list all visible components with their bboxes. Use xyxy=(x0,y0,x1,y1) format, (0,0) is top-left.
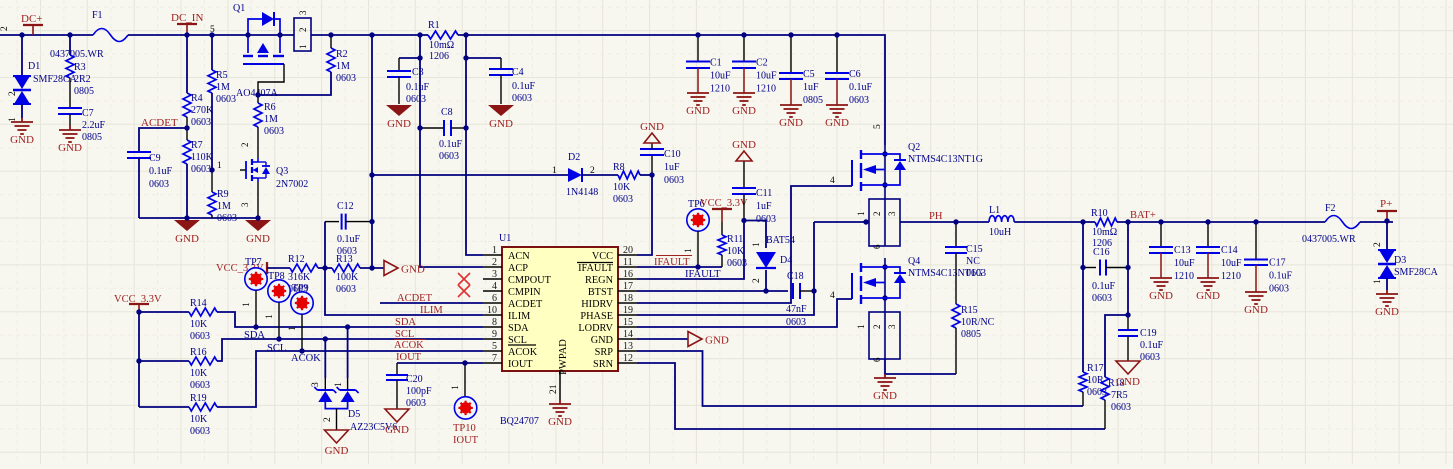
ground C20 xyxy=(385,409,409,422)
svg-text:3: 3 xyxy=(240,202,250,207)
svg-text:10mΩ: 10mΩ xyxy=(429,40,454,51)
svg-text:F2: F2 xyxy=(1325,203,1336,214)
svg-text:R6: R6 xyxy=(264,102,276,113)
svg-text:2: 2 xyxy=(0,26,10,31)
svg-text:R9: R9 xyxy=(217,189,229,200)
wire C16 row xyxy=(1082,222,1084,268)
svg-text:2: 2 xyxy=(872,325,882,330)
wire LODRV row to Q4 gate xyxy=(637,299,852,327)
svg-text:C6: C6 xyxy=(849,69,861,80)
wire BAT+ rail xyxy=(1117,221,1325,223)
svg-text:1uF: 1uF xyxy=(756,201,772,212)
wire ACN vertical x466 xyxy=(466,35,483,255)
svg-text:D2: D2 xyxy=(568,152,580,163)
wire C12 left vertical / ILIM xyxy=(325,222,483,315)
svg-text:47nF: 47nF xyxy=(786,304,807,315)
svg-text:0603: 0603 xyxy=(191,117,211,128)
svg-text:C13: C13 xyxy=(1174,245,1191,256)
svg-text:0603: 0603 xyxy=(191,164,211,175)
svg-text:C1: C1 xyxy=(710,58,722,69)
svg-text:10: 10 xyxy=(487,305,497,316)
capacitor C5 xyxy=(790,35,792,73)
svg-text:SMF28CA: SMF28CA xyxy=(1394,267,1439,278)
ground Q4 xyxy=(874,374,896,390)
Q1 drain pins bracket xyxy=(294,18,311,51)
ground C2 xyxy=(733,93,755,105)
svg-text:TP7: TP7 xyxy=(245,257,262,268)
svg-text:Q1: Q1 xyxy=(233,3,245,14)
svg-text:2: 2 xyxy=(298,28,308,33)
svg-text:10uF: 10uF xyxy=(1174,258,1195,269)
svg-text:2.2uF: 2.2uF xyxy=(82,120,106,131)
svg-text:1: 1 xyxy=(265,314,275,319)
svg-text:10K: 10K xyxy=(190,319,208,330)
svg-text:1210: 1210 xyxy=(756,84,776,95)
svg-text:5: 5 xyxy=(492,341,497,352)
wire R19 to ACOK row xyxy=(217,351,483,407)
svg-text:D1: D1 xyxy=(28,61,40,72)
svg-text:100pF: 100pF xyxy=(406,386,432,397)
wire IFAULT row xyxy=(637,266,722,268)
svg-text:GND: GND xyxy=(489,118,513,130)
svg-text:IFAULT: IFAULT xyxy=(578,263,614,274)
svg-text:GND: GND xyxy=(325,445,349,457)
svg-text:PWPAD: PWPAD xyxy=(558,339,569,375)
capacitor C4 xyxy=(500,58,502,69)
capacitor C19 xyxy=(1127,315,1129,330)
capacitor C12 xyxy=(325,221,339,223)
svg-text:2: 2 xyxy=(492,257,497,268)
svg-text:ACOK: ACOK xyxy=(291,353,321,364)
svg-text:0.1uF: 0.1uF xyxy=(1092,281,1116,292)
transistor Q2 NTMS4C13NT1G xyxy=(884,145,886,199)
capacitor C2 xyxy=(743,35,745,62)
ground C10 up xyxy=(644,133,660,143)
svg-text:6: 6 xyxy=(872,244,882,249)
svg-text:C10: C10 xyxy=(664,149,681,160)
resistor R13 xyxy=(332,264,360,272)
wire R5 to Q3 gate node xyxy=(211,93,213,170)
svg-text:1uF: 1uF xyxy=(803,82,819,93)
svg-text:4: 4 xyxy=(830,176,835,186)
svg-text:1: 1 xyxy=(334,382,344,387)
svg-text:0603: 0603 xyxy=(613,194,633,205)
capacitor C15 xyxy=(955,222,957,247)
Q2 source pins bracket xyxy=(869,199,900,246)
svg-text:U1: U1 xyxy=(499,233,511,244)
svg-text:C2: C2 xyxy=(756,58,768,69)
svg-text:0603: 0603 xyxy=(149,179,169,190)
wire Q3 source to ground rail xyxy=(257,182,259,218)
wire DC+ rail to Q1 xyxy=(128,34,294,36)
svg-text:R10: R10 xyxy=(1091,208,1108,219)
resistor R9 xyxy=(208,192,216,215)
wire ground rail bottom left xyxy=(139,217,258,219)
svg-text:0603: 0603 xyxy=(966,268,986,279)
U1 pin 20 VCC xyxy=(618,254,637,256)
svg-text:1210: 1210 xyxy=(1221,271,1241,282)
U1 pin 1 ACN xyxy=(483,254,502,256)
U1 pin 5 ACOK xyxy=(483,350,502,352)
resistor R17 xyxy=(1079,372,1087,392)
ground arrow U1 xyxy=(688,332,702,347)
svg-text:12: 12 xyxy=(623,353,633,364)
svg-text:4: 4 xyxy=(492,281,497,292)
svg-text:1: 1 xyxy=(552,166,557,176)
wire DC+ rail left xyxy=(0,34,93,36)
wire ACP vertical x420 xyxy=(420,35,483,267)
svg-text:1N4148: 1N4148 xyxy=(566,187,598,198)
wire ACDET row xyxy=(380,302,483,304)
U1 pin 15 LODRV xyxy=(618,326,637,328)
ground D3 xyxy=(1376,290,1398,306)
ground C17 xyxy=(1245,292,1267,304)
power port VCC_3.3V R11 xyxy=(712,208,732,210)
svg-text:0603: 0603 xyxy=(190,380,210,391)
svg-text:ACDET: ACDET xyxy=(508,299,543,310)
svg-text:GND: GND xyxy=(686,105,710,117)
resistor R3 xyxy=(69,35,71,55)
Q4 source pins bracket xyxy=(869,312,900,359)
svg-text:18: 18 xyxy=(623,293,633,304)
ground D5 xyxy=(325,430,349,443)
svg-text:1: 1 xyxy=(217,161,222,171)
svg-text:0603: 0603 xyxy=(439,151,459,162)
wire D4 to BTST xyxy=(765,270,767,291)
resistor R11 xyxy=(721,222,723,235)
svg-text:C5: C5 xyxy=(803,69,815,80)
svg-text:0.1uF: 0.1uF xyxy=(1140,340,1164,351)
ground C14 xyxy=(1197,278,1219,290)
svg-text:1210: 1210 xyxy=(710,84,730,95)
ground D1 xyxy=(11,118,33,134)
resistor R19 xyxy=(139,406,189,408)
diode D1 TVS xyxy=(21,35,23,75)
wire SRN jog xyxy=(1105,315,1128,377)
svg-text:DC_IN: DC_IN xyxy=(171,12,203,24)
wire PH rail xyxy=(814,221,869,223)
svg-text:3: 3 xyxy=(298,10,308,15)
svg-text:3: 3 xyxy=(311,382,321,387)
resistor R1 xyxy=(428,31,458,39)
svg-text:2: 2 xyxy=(872,212,882,217)
svg-text:Q3: Q3 xyxy=(276,166,288,177)
svg-text:GND: GND xyxy=(1149,290,1173,302)
svg-text:1: 1 xyxy=(856,212,866,217)
svg-text:R11: R11 xyxy=(727,234,743,245)
svg-text:0.1uF: 0.1uF xyxy=(149,166,173,177)
body diode Q1 xyxy=(248,19,262,35)
svg-text:1: 1 xyxy=(451,385,461,390)
svg-text:D3: D3 xyxy=(1394,255,1406,266)
svg-text:GND: GND xyxy=(1116,376,1140,388)
svg-text:0603: 0603 xyxy=(217,213,237,224)
svg-text:R12: R12 xyxy=(288,254,305,265)
svg-text:8: 8 xyxy=(492,317,497,328)
svg-text:10mΩ: 10mΩ xyxy=(1092,227,1117,238)
wire D2 to R8 xyxy=(582,174,618,176)
svg-text:C4: C4 xyxy=(512,67,524,78)
resistor R18 xyxy=(1101,377,1109,400)
svg-text:NTMS4C13NT1G: NTMS4C13NT1G xyxy=(908,154,983,165)
junction dots xyxy=(19,32,24,37)
capacitor C1 xyxy=(697,35,699,62)
svg-text:2: 2 xyxy=(752,278,762,283)
U1 pin 13 SRP xyxy=(618,350,637,352)
svg-text:2: 2 xyxy=(1373,242,1383,247)
svg-text:0603: 0603 xyxy=(190,331,210,342)
ground C11 up xyxy=(736,151,752,161)
U1 pin 14 GND xyxy=(618,338,637,340)
svg-text:17: 17 xyxy=(623,281,633,292)
ground C5 xyxy=(780,105,802,117)
svg-text:GND: GND xyxy=(732,105,756,117)
svg-text:F1: F1 xyxy=(92,10,103,21)
resistor R5 xyxy=(211,35,213,70)
svg-text:21: 21 xyxy=(549,384,559,394)
svg-text:1: 1 xyxy=(298,45,308,50)
svg-text:ACP: ACP xyxy=(508,263,528,274)
resistor R16 xyxy=(139,360,189,362)
svg-text:C7: C7 xyxy=(82,108,94,119)
svg-text:R3: R3 xyxy=(74,62,86,73)
svg-text:SDA: SDA xyxy=(395,317,416,328)
svg-text:R15: R15 xyxy=(961,305,978,316)
svg-text:3: 3 xyxy=(887,211,897,216)
wire VCC to U1 xyxy=(637,175,652,255)
svg-text:DC+: DC+ xyxy=(21,13,42,25)
wire SRP row xyxy=(637,351,1083,406)
fuse F1 xyxy=(93,29,128,42)
svg-text:R17: R17 xyxy=(1087,363,1104,374)
svg-text:GND: GND xyxy=(58,142,82,154)
svg-text:0603: 0603 xyxy=(216,94,236,105)
capacitor C18 xyxy=(792,283,794,299)
svg-text:0603: 0603 xyxy=(1092,293,1112,304)
capacitor C14 xyxy=(1207,222,1209,247)
svg-text:1M: 1M xyxy=(217,201,231,212)
svg-text:2: 2 xyxy=(323,417,333,422)
svg-text:1: 1 xyxy=(1373,279,1383,284)
U1 pin 3 CMPOUT xyxy=(483,278,502,280)
svg-text:11: 11 xyxy=(623,257,633,268)
svg-text:3: 3 xyxy=(887,324,897,329)
U1 pin 7 IOUT xyxy=(483,362,502,364)
wire ACDET node xyxy=(139,128,187,152)
svg-text:10K: 10K xyxy=(727,246,745,257)
diode D4 BAT54 xyxy=(756,252,776,268)
svg-text:0805: 0805 xyxy=(961,329,981,340)
U1 pin 18 HIDRV xyxy=(618,302,637,304)
ground rail left xyxy=(174,220,200,231)
svg-text:0603: 0603 xyxy=(336,73,356,84)
svg-text:GND: GND xyxy=(175,233,199,245)
svg-text:GND: GND xyxy=(246,233,270,245)
svg-text:C18: C18 xyxy=(787,271,804,282)
diode D2 1N4148 xyxy=(568,168,582,182)
svg-text:6: 6 xyxy=(492,293,497,304)
capacitor C13 xyxy=(1160,222,1162,247)
svg-text:CMPOUT: CMPOUT xyxy=(508,275,552,286)
svg-text:0603: 0603 xyxy=(264,126,284,137)
svg-text:0437005.WR: 0437005.WR xyxy=(50,49,104,60)
svg-text:GND: GND xyxy=(1196,290,1220,302)
capacitor C7 xyxy=(58,107,82,109)
svg-text:IOUT: IOUT xyxy=(508,359,533,370)
svg-text:R16: R16 xyxy=(190,347,207,358)
svg-text:PH: PH xyxy=(929,211,943,222)
svg-text:1: 1 xyxy=(752,242,762,247)
svg-text:GND: GND xyxy=(732,139,756,151)
capacitor C6 xyxy=(836,35,838,73)
svg-text:GND: GND xyxy=(825,117,849,129)
wire HIDRV row to Q2 gate xyxy=(637,186,852,303)
svg-text:0805: 0805 xyxy=(803,95,823,106)
svg-text:0603: 0603 xyxy=(1269,284,1289,295)
resistor R15 xyxy=(952,304,960,328)
svg-text:GND: GND xyxy=(10,134,34,146)
svg-text:2N7002: 2N7002 xyxy=(276,179,308,190)
svg-text:ILIM: ILIM xyxy=(420,305,443,316)
svg-text:TP10: TP10 xyxy=(453,423,476,434)
wire DC_IN down to R4 xyxy=(186,35,188,93)
U1 pin 9 SCL xyxy=(483,338,502,340)
svg-text:SMF28CA: SMF28CA xyxy=(33,74,78,85)
U1 BQ24707 body xyxy=(502,247,618,371)
svg-text:GND: GND xyxy=(779,117,803,129)
wire R13 to gnd arrow xyxy=(360,267,384,269)
wire D2 row xyxy=(372,174,568,176)
capacitor C9 xyxy=(127,151,151,153)
U1 pin 21 PWPAD xyxy=(559,371,561,400)
svg-text:0603: 0603 xyxy=(1111,402,1131,413)
svg-text:GND: GND xyxy=(385,424,409,436)
wire R12 R13 xyxy=(318,267,332,269)
svg-text:SCL: SCL xyxy=(508,335,527,346)
U1 pin 6 ACDET xyxy=(483,302,502,304)
svg-text:C15: C15 xyxy=(966,244,983,255)
svg-text:110K: 110K xyxy=(191,152,214,163)
svg-text:R7: R7 xyxy=(191,140,203,151)
svg-text:1: 1 xyxy=(492,245,497,256)
svg-text:19: 19 xyxy=(623,305,633,316)
svg-text:BAT+: BAT+ xyxy=(1130,210,1156,221)
svg-text:270K: 270K xyxy=(191,105,214,116)
svg-text:2: 2 xyxy=(8,91,18,96)
ground C7 xyxy=(59,126,81,142)
U1 pin 12 SRN xyxy=(618,362,637,364)
svg-text:R14: R14 xyxy=(190,298,207,309)
svg-text:NC: NC xyxy=(966,256,980,267)
resistor R2 xyxy=(327,48,335,72)
svg-text:7: 7 xyxy=(492,353,497,364)
svg-text:0603: 0603 xyxy=(190,426,210,437)
resistor R12 xyxy=(290,264,318,272)
no connect CMPOUT xyxy=(458,273,470,285)
svg-text:10R/NC: 10R/NC xyxy=(961,317,995,328)
svg-text:10uF: 10uF xyxy=(1221,258,1242,269)
svg-text:GND: GND xyxy=(387,118,411,130)
svg-text:GND: GND xyxy=(401,264,425,276)
resistor R6 xyxy=(257,95,259,103)
svg-text:1M: 1M xyxy=(216,82,230,93)
svg-text:10K: 10K xyxy=(613,182,631,193)
power port VCC divider xyxy=(266,262,268,274)
svg-text:1210: 1210 xyxy=(1174,271,1194,282)
svg-text:15: 15 xyxy=(623,317,633,328)
svg-text:16: 16 xyxy=(623,269,633,280)
svg-text:L1: L1 xyxy=(989,205,1000,216)
capacitor C17 xyxy=(1255,222,1257,260)
svg-text:10R: 10R xyxy=(1087,375,1104,386)
svg-text:C11: C11 xyxy=(756,188,772,199)
svg-text:0603: 0603 xyxy=(337,246,357,257)
no connect CMPIN xyxy=(458,285,470,297)
svg-text:0603: 0603 xyxy=(849,95,869,106)
wire R6 to Q3 drain xyxy=(257,127,259,158)
svg-text:C12: C12 xyxy=(337,201,354,212)
capacitor C20 xyxy=(396,363,398,375)
wire Q1 gate chain xyxy=(258,64,284,95)
svg-text:D5: D5 xyxy=(348,409,360,420)
resistor R10 xyxy=(1095,218,1117,226)
svg-text:C19: C19 xyxy=(1140,328,1157,339)
wire PHASE row xyxy=(637,222,814,315)
svg-text:1M: 1M xyxy=(336,61,350,72)
svg-text:Q4: Q4 xyxy=(908,256,920,267)
ground C3 xyxy=(386,105,412,116)
svg-text:R4: R4 xyxy=(191,93,203,104)
svg-text:C9: C9 xyxy=(149,153,161,164)
svg-text:1uF: 1uF xyxy=(664,162,680,173)
svg-text:SCL: SCL xyxy=(395,329,414,340)
wire IOUT row xyxy=(397,362,483,364)
svg-text:0805: 0805 xyxy=(74,86,94,97)
svg-text:5: 5 xyxy=(873,124,883,129)
wire divider vertical x372 xyxy=(371,35,373,268)
svg-text:4: 4 xyxy=(830,291,835,301)
svg-text:10uF: 10uF xyxy=(756,71,777,82)
svg-text:GND: GND xyxy=(1375,306,1399,318)
svg-text:0603: 0603 xyxy=(336,284,356,295)
svg-text:GND: GND xyxy=(548,416,572,428)
U1 pin 2 ACP xyxy=(483,266,502,268)
svg-text:SCL: SCL xyxy=(267,343,286,354)
wire gate node to R2 xyxy=(258,72,331,95)
svg-text:1: 1 xyxy=(242,302,252,307)
wire rail R1 to Q2 drain corner xyxy=(458,35,885,145)
svg-text:C20: C20 xyxy=(406,374,423,385)
resistor R7 xyxy=(183,140,191,164)
svg-text:7R5: 7R5 xyxy=(1111,390,1128,401)
svg-text:BTST: BTST xyxy=(588,287,614,298)
wire Q4 source to ground rail xyxy=(885,359,956,374)
ground C19 xyxy=(1116,361,1140,374)
svg-text:R2: R2 xyxy=(336,49,348,60)
svg-text:0603: 0603 xyxy=(664,175,684,186)
svg-text:3: 3 xyxy=(492,269,497,280)
U1 pin 16 REGN xyxy=(618,278,637,280)
svg-text:2R2: 2R2 xyxy=(74,74,91,85)
svg-text:HIDRV: HIDRV xyxy=(581,299,613,310)
fuse F2 xyxy=(1325,216,1360,229)
svg-text:C16: C16 xyxy=(1093,247,1110,258)
wire R8 to C10 node xyxy=(640,174,652,176)
svg-text:IOUT: IOUT xyxy=(453,435,479,446)
svg-text:10K: 10K xyxy=(190,414,208,425)
wire C4 top xyxy=(466,57,501,59)
svg-text:PHASE: PHASE xyxy=(580,311,613,322)
